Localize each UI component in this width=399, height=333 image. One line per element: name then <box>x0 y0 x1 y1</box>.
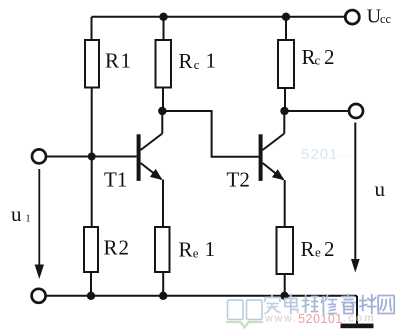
svg-text:u: u <box>11 202 22 226</box>
wire: base of T1 <box>92 156 137 158</box>
wire: Re2 bottom lead <box>284 274 286 296</box>
svg-text:1: 1 <box>205 237 216 261</box>
wire: R1 bottom to base node <box>91 88 93 157</box>
arrow: input voltage u1 <box>35 169 44 279</box>
svg-text:c: c <box>194 57 200 72</box>
label Re2 <box>301 237 335 261</box>
wire: T1 collector node to T2 base (coupling) <box>162 111 258 157</box>
svg-text:T1: T1 <box>104 168 127 192</box>
svg-text:R2: R2 <box>104 236 131 260</box>
resistor R1 <box>85 40 99 88</box>
junction: collector node of T2 <box>280 107 288 115</box>
svg-text:u: u <box>375 177 386 201</box>
arrow: output voltage u <box>351 123 360 273</box>
svg-text:R: R <box>302 45 316 69</box>
svg-text:cc: cc <box>380 12 392 26</box>
wire: output node to output terminal <box>285 110 350 112</box>
wire: base node down to R2 <box>91 157 93 228</box>
resistor Re1 <box>155 227 170 272</box>
wire: T2 emitter down to Re2 <box>284 180 286 227</box>
junction: top rail above Rc1 <box>159 13 167 21</box>
svg-text:c: c <box>315 53 321 68</box>
junction: collector node of T1 <box>158 107 166 115</box>
resistor Rc1 <box>156 40 172 88</box>
terminal: Ucc supply <box>345 10 359 24</box>
junction: bottom rail below Re1 <box>159 292 167 300</box>
wire: Rc2 top lead <box>285 17 287 40</box>
junction: bottom rail below Re2 <box>280 292 288 300</box>
svg-text:1: 1 <box>25 214 30 225</box>
resistor Rc2 <box>278 40 294 88</box>
terminal: input (left) <box>32 149 46 163</box>
wire: top supply rail <box>92 16 346 18</box>
svg-text:2: 2 <box>324 45 335 69</box>
wire: Rc2 bottom lead <box>284 88 286 111</box>
watermark: chinese text <box>265 295 394 314</box>
svg-text:R1: R1 <box>105 49 133 73</box>
terminal: output (right) <box>349 104 363 118</box>
junction: top rail above Rc2 <box>282 13 290 21</box>
ground <box>341 296 374 328</box>
terminal: bottom-left <box>32 289 46 303</box>
wire: input terminal to base node <box>46 156 92 158</box>
svg-text:R: R <box>179 238 193 262</box>
svg-text:e: e <box>193 245 199 260</box>
wire: Rc1 top lead <box>163 17 165 40</box>
wire: Re1 bottom lead <box>162 272 164 296</box>
wire: collector node down to T2 <box>283 111 285 134</box>
resistor Re2 <box>277 227 294 274</box>
svg-text:R: R <box>301 237 315 261</box>
junction: node base of T1 <box>88 153 96 161</box>
label Re1 <box>179 237 216 262</box>
junction: bottom rail below R2 <box>87 292 95 300</box>
wire: R2 bottom lead <box>90 272 92 296</box>
watermark: book logo <box>226 300 263 328</box>
label u1 <box>11 202 31 226</box>
label Ucc <box>367 5 392 27</box>
svg-text:2: 2 <box>324 237 335 261</box>
wire: bottom rail <box>46 295 357 297</box>
resistor R2 <box>84 227 98 272</box>
transistor T2 <box>259 134 285 181</box>
label Rc2 <box>302 45 335 69</box>
wire: Rc1 bottom lead <box>162 88 164 112</box>
svg-text:1: 1 <box>206 49 217 73</box>
svg-text:www.520101.com: www.520101.com <box>264 312 376 326</box>
label Rc1 <box>179 49 217 73</box>
wire: R1 top lead <box>91 17 93 40</box>
watermark: url text <box>264 312 376 326</box>
transistor T1 <box>137 134 163 181</box>
svg-text:R: R <box>179 49 193 73</box>
svg-text:e: e <box>315 245 321 260</box>
wire: T1 emitter down to Re1 <box>162 180 164 228</box>
wire: collector node down to T1 <box>161 111 163 134</box>
svg-text:5201...: 5201... <box>301 146 351 163</box>
svg-text:T2: T2 <box>227 168 250 192</box>
